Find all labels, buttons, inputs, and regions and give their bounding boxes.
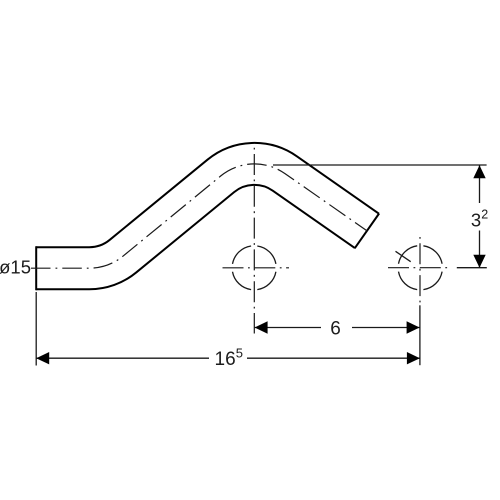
svg-text:6: 6 xyxy=(330,318,341,339)
svg-text:5: 5 xyxy=(236,346,243,361)
svg-text:16: 16 xyxy=(215,349,236,370)
svg-text:3: 3 xyxy=(471,209,481,230)
svg-text:2: 2 xyxy=(481,207,488,221)
svg-text:ø15: ø15 xyxy=(0,256,31,277)
